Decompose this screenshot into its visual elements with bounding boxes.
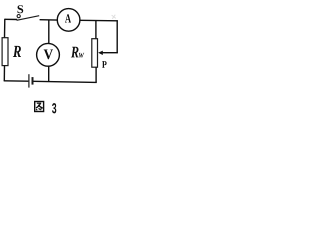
- wire left edge lower: [3, 65, 5, 81]
- wire voltmeter top: [48, 20, 50, 44]
- battery cell: [29, 74, 33, 87]
- ammeter A: [57, 9, 80, 32]
- wire voltmeter bottom: [48, 66, 50, 82]
- wire rheostat bottom: [95, 67, 97, 82]
- wire bottom right segment: [33, 81, 96, 82]
- wire slider arm: [102, 52, 118, 54]
- wire top-left segment: [5, 18, 18, 20]
- voltmeter V: [37, 43, 60, 66]
- switch S: [17, 5, 40, 20]
- wire left edge upper: [4, 19, 6, 38]
- wire bottom left segment: [4, 80, 29, 82]
- wire rheostat top: [95, 21, 97, 39]
- wire top-middle segment: [40, 19, 58, 21]
- caption 图 3: [35, 102, 57, 114]
- wire right edge: [116, 20, 118, 53]
- slider arrow P: [98, 51, 107, 68]
- rheostat RW: [71, 39, 98, 67]
- wire top-right segment: [80, 15, 118, 21]
- resistor R: [2, 38, 21, 66]
